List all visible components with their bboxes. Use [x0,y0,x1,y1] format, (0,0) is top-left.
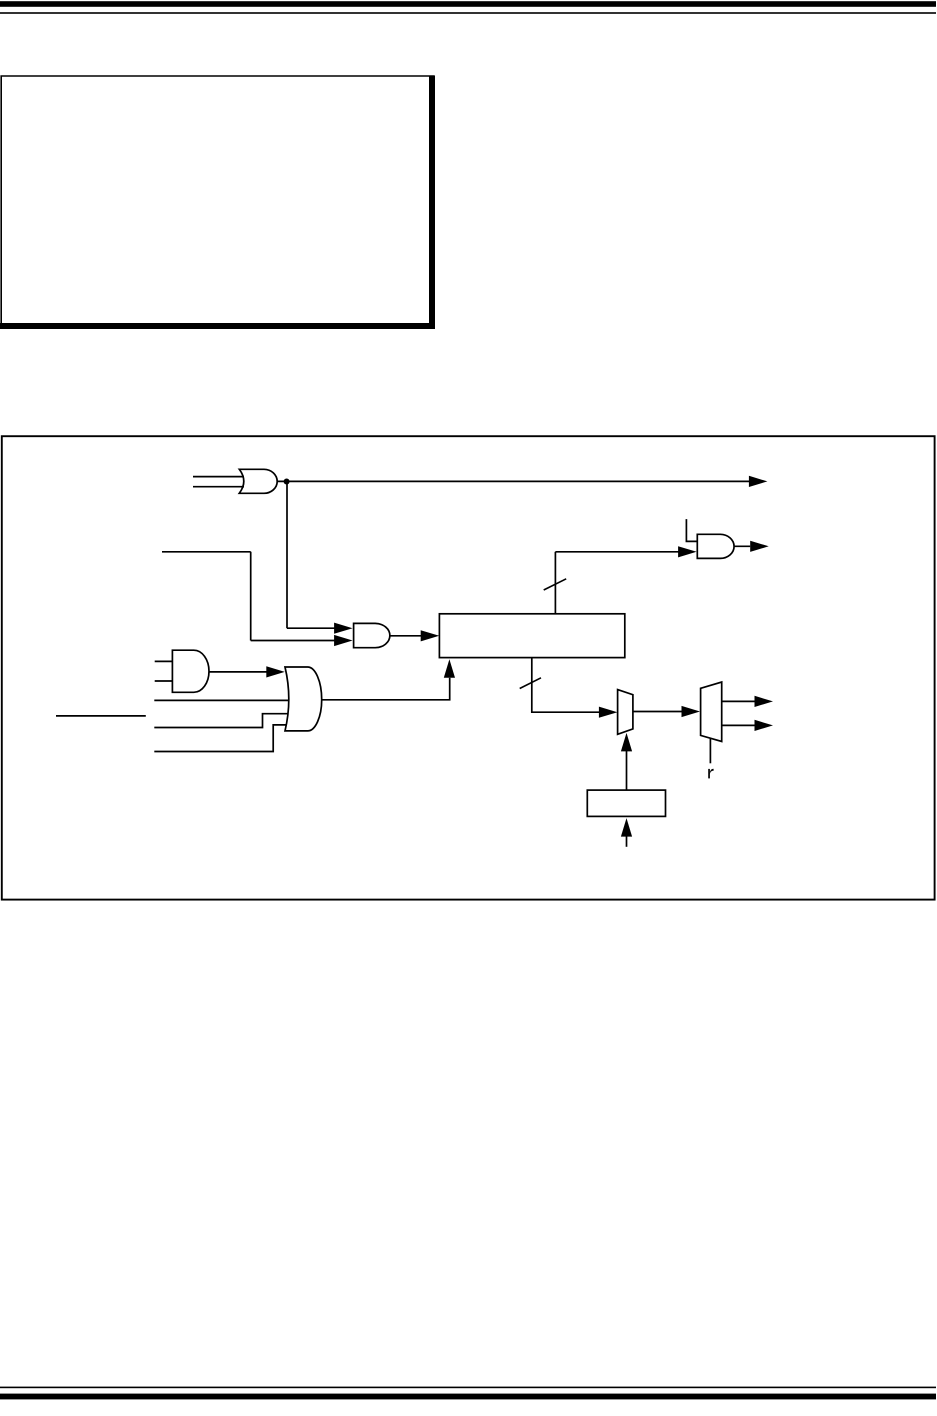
wire upper-left horizontal [162,551,251,553]
wire to U2 input 2 [251,640,335,642]
wire REG1 top up [554,552,556,614]
note box (shadowed) [0,76,435,328]
arrowhead into REG1 [421,630,440,641]
wire to U2 input 1 [287,627,335,629]
wire REG2 to M1 select [626,751,628,790]
header thin rule [0,12,936,14]
footer thin rule [0,1387,936,1389]
wire M2 select down [709,739,711,764]
arrowhead M2 output 1 [755,696,774,707]
wire junction down [286,482,288,629]
wire U4 output [209,671,267,673]
arrowhead into M2 [682,706,701,717]
demux M2 [701,682,722,742]
and-gate U2 [354,623,390,647]
arrowhead M2 output 2 [755,720,774,731]
arrowhead into U5 [266,666,285,677]
wire U5 input straight [154,699,288,701]
arrowhead into M1 bottom [621,733,632,752]
wire U3 output [734,545,750,547]
wire U4 input stub 1 [155,660,173,662]
register REG2 [587,790,665,816]
wire U1 output to right [277,480,749,482]
wire U5 input jog 1 [154,714,287,728]
wire U2 output [390,635,422,637]
arrowhead into M1 [599,707,618,718]
wire U3 top input L [686,519,697,541]
mux M1 [618,690,633,735]
figure frame [2,436,935,899]
wire U1 input 1 [193,476,244,478]
label r [708,769,713,779]
arrowhead U2 input 2 [334,635,353,646]
footer thick rule [0,1394,936,1400]
arrowhead U3 output [750,541,769,552]
arrowhead into REG2 bottom [621,818,632,837]
and-gate U3 [697,534,734,558]
wire U4 input stub 2 [155,680,173,682]
arrowhead into REG1 bottom [444,659,455,678]
wire REG1 bottom to mux [532,658,600,713]
wire floating stub [56,715,146,717]
wire M2 output 2 [722,724,755,726]
arrowhead U2 input 1 [334,623,353,634]
wire M2 output 1 [722,700,755,702]
header thick rule [0,1,936,7]
wire U5 output up to REG1 [322,678,450,700]
arrowhead right end [749,476,768,487]
wire vertical drop [250,552,252,641]
bus slash upper [544,579,567,590]
register REG1 [439,614,624,658]
wire M1 output [633,711,682,713]
wire U1 input 2 [193,486,244,488]
wire to U3 input [555,551,679,553]
or-gate U5 [285,667,322,731]
wire U5 input jog 2 [154,725,286,752]
bus slash lower [520,678,541,689]
arrowhead U3 input [678,546,697,557]
node junction dot [284,479,290,485]
wire REG2 bottom input [626,837,628,847]
or-gate U1 [239,469,277,493]
and-gate U4 [172,650,209,692]
